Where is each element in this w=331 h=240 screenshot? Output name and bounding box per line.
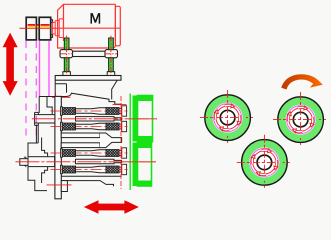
roller 2 side view (green): [130, 141, 151, 191]
roller circle 3 end view: [237, 135, 292, 190]
arm tip ledge above row 1: [115, 103, 122, 105]
belt dashed magenta line 1: [25, 41, 27, 136]
pulley 2: [39, 17, 51, 40]
red dashed vertical at roller 2 left: [120, 146, 122, 189]
roller 1 left axle: [35, 112, 55, 125]
orange rotation arrow top right: [281, 74, 323, 89]
frame top plate: [55, 76, 121, 81]
spacer slab between rows 3-4: [76, 159, 122, 163]
frame upper arm: [39, 80, 117, 104]
frame main column: [55, 96, 61, 198]
roller 2 left axle band: [20, 157, 55, 167]
left bracket upper (roller1 axle support): [39, 97, 52, 115]
shaft stripes between pulleys: [37, 24, 39, 26]
stud bolt right (green): [105, 36, 117, 77]
motor M1 body: [58, 4, 121, 48]
motor mount bar: [60, 50, 118, 58]
spindle rows (4): [51, 106, 129, 176]
motor label M: [91, 13, 101, 24]
red centerline at base left: [47, 184, 72, 186]
lower housing slab below row 4: [61, 176, 121, 186]
red dash above row 1 end: [113, 104, 127, 106]
red dashed vertical at roller 1 left: [120, 96, 122, 143]
roller 1 centerline: [32, 118, 157, 120]
stud bolt left (green): [61, 36, 73, 77]
roller 2 centerline over green: [128, 161, 156, 163]
column foot step block: [61, 181, 67, 192]
roller circle 2 end view: [273, 92, 328, 147]
left support wall / brackets (roller 2 axle): [28, 125, 48, 191]
spindle row 2: [51, 121, 129, 132]
motor shaft flange (red stepped cone): [53, 16, 64, 42]
belt dashed magenta line 2: [35, 41, 37, 136]
pulley shaft centerline: [20, 27, 58, 29]
roller 2 centerline: [15, 161, 156, 163]
belt solid magenta line 4: [48, 41, 50, 96]
roller 1 side view (green): [130, 94, 152, 144]
shaft step tabs on pulley 2: [51, 20, 53, 38]
red mark on arm left: [52, 96, 71, 98]
pulley 1: [26, 17, 36, 40]
red vertical double arrow: [3, 33, 18, 96]
roller 1 centerline over green: [128, 118, 157, 120]
roller circle 1 end view: [200, 90, 255, 145]
spindle row 4: [51, 164, 129, 175]
coupling blocks at spindle ends: [122, 106, 127, 175]
middle housing funnel between rows 2-3: [61, 133, 121, 148]
belt solid magenta line 3: [39, 41, 41, 96]
red horizontal double arrow: [84, 200, 139, 214]
spacer slab between rows 1-2: [76, 117, 122, 121]
spindle row 3: [51, 148, 129, 159]
